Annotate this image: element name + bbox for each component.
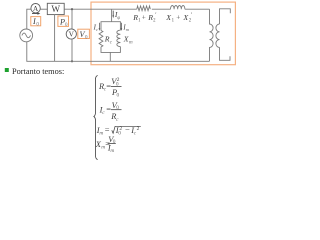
current arrow I_c — [93, 23, 101, 32]
svg-text:c: c — [96, 27, 98, 32]
bullet marker — [5, 68, 9, 72]
svg-text:Portanto temos:: Portanto temos: — [12, 67, 64, 76]
svg-text:2: 2 — [119, 126, 122, 132]
wire shunt node down to parallel cell — [111, 9, 113, 22]
svg-text:+: + — [176, 14, 180, 22]
orange equivalent-circuit box — [91, 2, 235, 65]
voltmeter V — [66, 9, 76, 61]
formula Ic = V0/Rc — [99, 101, 122, 123]
svg-text:c: c — [110, 40, 113, 45]
svg-text:−: − — [125, 125, 130, 134]
svg-text:m: m — [129, 40, 133, 45]
inductor X1+X2' (series humps) — [171, 5, 185, 9]
svg-text:m: m — [110, 148, 114, 154]
label Xm — [123, 35, 133, 46]
junction node bottom — [71, 60, 73, 62]
svg-text:2: 2 — [137, 126, 140, 132]
svg-text:W: W — [51, 4, 60, 14]
ammeter A — [31, 4, 40, 13]
formula Im = sqrt(I0^2 - Ic^2) — [96, 125, 141, 136]
svg-text:φ: φ — [117, 16, 120, 21]
svg-text:=: = — [105, 126, 110, 135]
label I0 box — [31, 17, 41, 28]
label P0 box — [58, 16, 69, 28]
transformer T1 secondary winding — [216, 24, 220, 47]
current direction arrow under ammeter — [32, 13, 38, 15]
label V0 box — [78, 29, 90, 40]
wire from wattmeter bottom down to bottom rail — [54, 15, 56, 62]
svg-text:0: 0 — [113, 139, 116, 145]
svg-text:+: + — [142, 14, 146, 22]
wire resistor to inductor — [152, 8, 171, 10]
formula group left brace — [94, 76, 98, 160]
junction node — [71, 8, 73, 10]
svg-text:1: 1 — [138, 18, 141, 23]
svg-text:2: 2 — [189, 18, 192, 23]
svg-text:0: 0 — [116, 105, 119, 111]
svg-text:m: m — [126, 27, 130, 32]
svg-text:A: A — [33, 4, 39, 13]
formula Xm = V0/Im — [95, 135, 116, 154]
wire cell to bottom rail — [109, 52, 111, 61]
svg-text:′: ′ — [155, 12, 157, 18]
inductor Xm (vertical coil) — [117, 30, 121, 46]
label X1+X2' — [165, 12, 192, 23]
svg-text:0: 0 — [117, 93, 120, 99]
secondary top terminal lead — [220, 9, 231, 24]
wire from source up to ammeter — [27, 9, 31, 29]
ac source G1 — [20, 29, 33, 42]
label Rc — [104, 35, 113, 46]
svg-text:V: V — [69, 30, 75, 39]
svg-text:′: ′ — [191, 12, 193, 18]
svg-text:m: m — [99, 131, 103, 137]
current arrow I_m — [121, 23, 130, 32]
svg-text:2: 2 — [117, 77, 120, 83]
bottom rail wire — [27, 42, 210, 62]
transformer T1 primary winding — [210, 9, 214, 61]
wattmeter W — [47, 3, 64, 14]
formula Rc = V0^2/P0 — [98, 77, 122, 98]
current arrow I_phi — [112, 10, 120, 21]
wire ammeter to wattmeter — [40, 8, 47, 10]
parallel cell frame wires — [101, 22, 120, 53]
secondary bottom terminal lead — [220, 47, 231, 60]
wire inductor to transformer — [185, 8, 210, 10]
svg-text:1: 1 — [172, 18, 175, 23]
svg-text:c: c — [102, 110, 105, 116]
wire wattmeter to resistor — [64, 8, 137, 10]
resistor Rc (vertical zigzag) — [99, 31, 103, 47]
resistor R1+R2' (series zigzag) — [137, 6, 151, 11]
svg-text:c: c — [116, 117, 119, 123]
label R1+R2' — [132, 12, 157, 23]
svg-text:2: 2 — [153, 18, 156, 23]
